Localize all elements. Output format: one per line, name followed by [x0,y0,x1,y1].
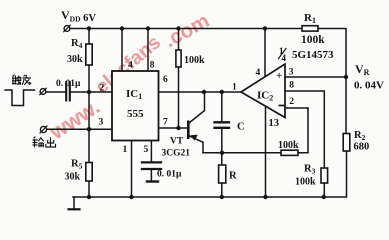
svg-text:7: 7 [163,118,168,128]
svg-text:0. 01μ: 0. 01μ [157,170,182,180]
svg-text:3CG21: 3CG21 [162,149,191,159]
svg-text:555: 555 [127,108,144,120]
svg-text:6: 6 [163,75,168,85]
svg-text:+: + [276,70,282,82]
svg-text:3: 3 [99,118,104,128]
svg-text:4: 4 [128,61,133,71]
svg-text:8: 8 [150,61,155,71]
svg-text:8: 8 [289,81,294,91]
svg-text:0. 04V: 0. 04V [354,80,384,92]
svg-text:100k: 100k [184,55,205,66]
svg-text:C: C [237,122,245,133]
svg-text:5G14573: 5G14573 [292,49,334,61]
svg-text:30k: 30k [67,54,83,65]
svg-text:30k: 30k [65,172,81,183]
svg-text:1: 1 [123,145,128,155]
svg-text:0. 01μ: 0. 01μ [56,79,81,89]
svg-text:4: 4 [256,68,261,78]
svg-text:2: 2 [289,97,294,107]
svg-text:2: 2 [100,84,105,94]
svg-text:100k: 100k [301,34,325,46]
svg-text:R: R [229,171,237,182]
svg-text:100k: 100k [278,140,299,151]
svg-text:680: 680 [354,142,370,153]
svg-text:3: 3 [289,68,294,78]
svg-text:4: 4 [282,53,287,63]
svg-text:13: 13 [269,118,280,129]
svg-text:5: 5 [144,145,149,155]
svg-text:100k: 100k [295,177,316,188]
svg-text:1: 1 [232,83,237,93]
svg-text:VT: VT [170,137,184,147]
